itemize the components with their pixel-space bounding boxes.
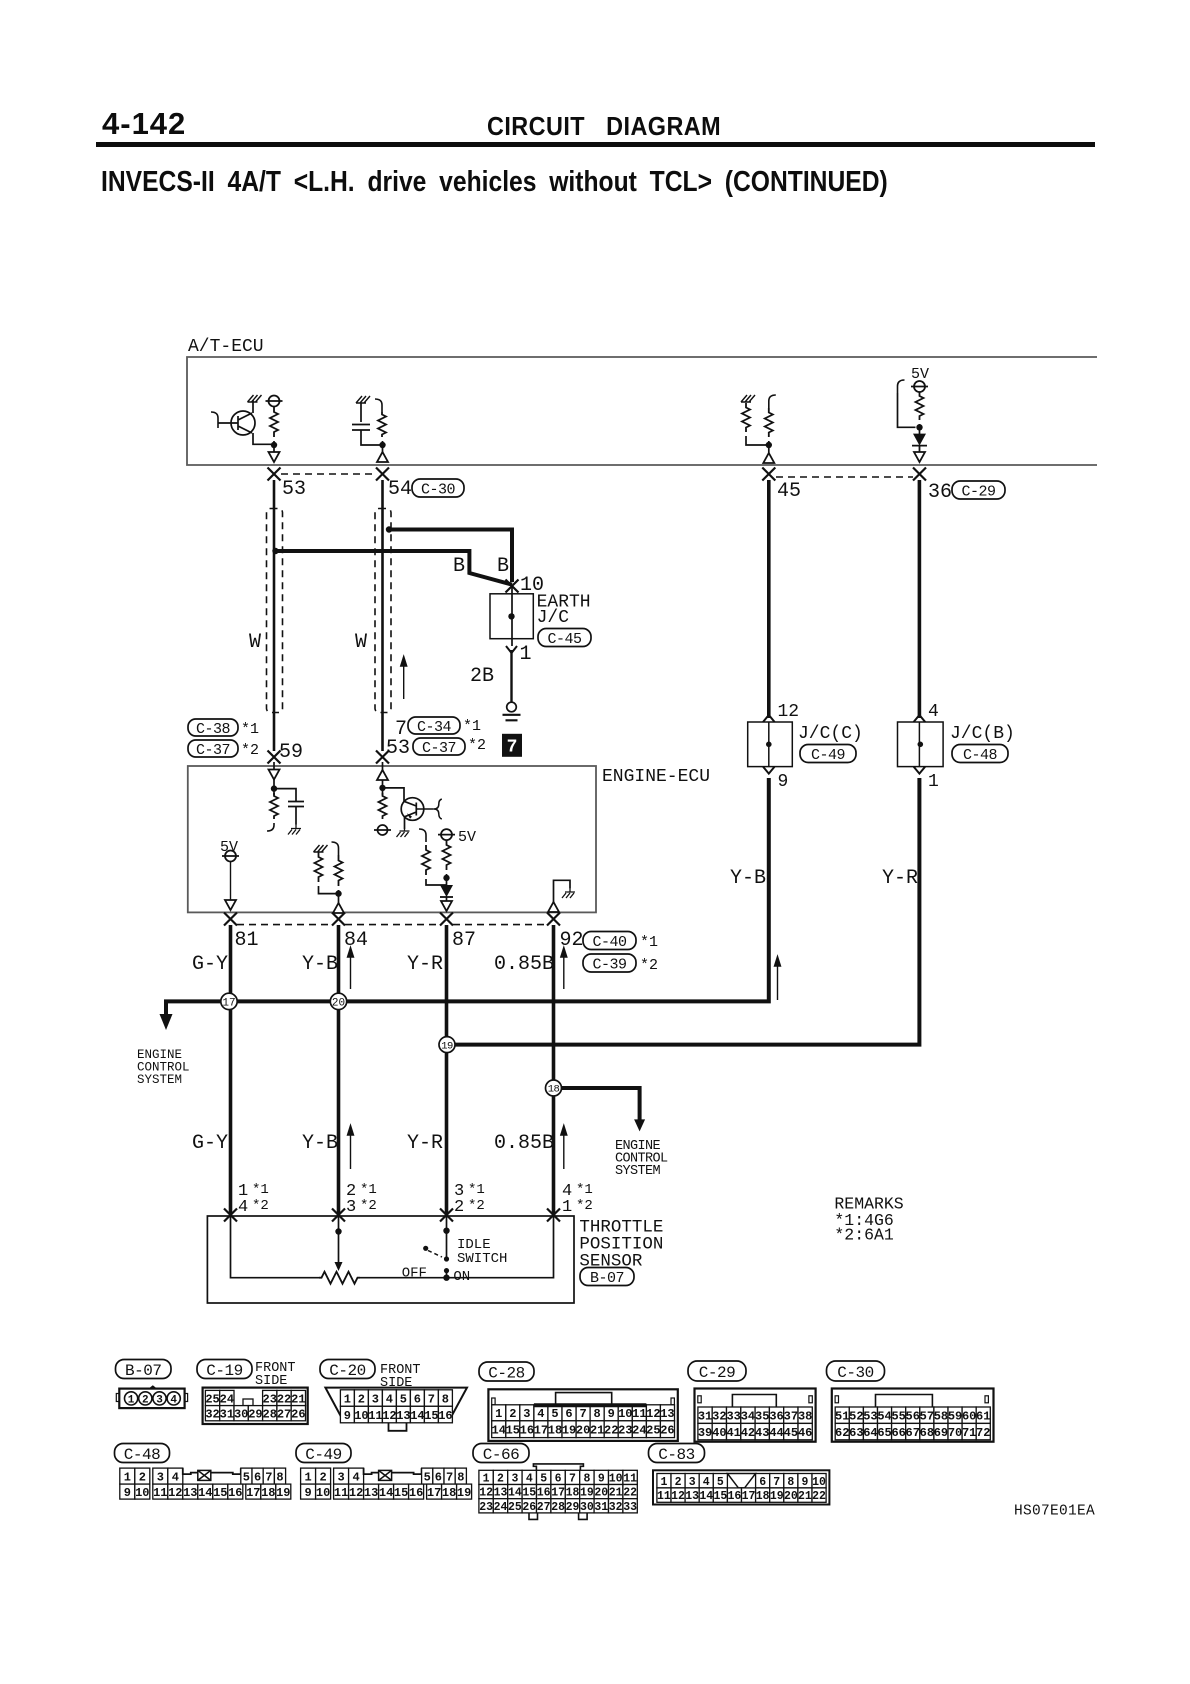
svg-text:66: 66 xyxy=(891,1426,905,1440)
wire Y-R to J/C(B) xyxy=(918,480,922,718)
svg-text:C-66: C-66 xyxy=(483,1446,519,1464)
wire Y-B upper xyxy=(337,925,341,1216)
pin 53 connector mark xyxy=(268,468,281,481)
svg-text:6: 6 xyxy=(435,1470,442,1484)
dashed harness box left xyxy=(267,509,283,713)
svg-text:43: 43 xyxy=(755,1426,769,1440)
svg-text:5: 5 xyxy=(424,1470,431,1484)
svg-text:14: 14 xyxy=(699,1490,713,1503)
junction dot node87 xyxy=(443,875,449,881)
pin 87 connector mark xyxy=(440,913,453,926)
svg-text:4: 4 xyxy=(352,1470,359,1484)
svg-text:5: 5 xyxy=(400,1392,407,1406)
TPS wiper junction dot xyxy=(335,1228,341,1234)
svg-text:16: 16 xyxy=(537,1487,551,1500)
svg-text:69: 69 xyxy=(934,1426,948,1440)
TPS wiper arrow xyxy=(335,1262,343,1271)
svg-text:17: 17 xyxy=(551,1487,565,1500)
diode D2 xyxy=(446,874,448,886)
svg-text:7: 7 xyxy=(579,1407,586,1421)
svg-text:Y-R: Y-R xyxy=(407,1132,443,1155)
connector tag C-30 bottom xyxy=(827,1361,885,1381)
svg-text:32: 32 xyxy=(205,1408,219,1422)
svg-text:11: 11 xyxy=(632,1407,646,1421)
J/C(C) wire through xyxy=(768,722,770,767)
svg-text:*2:6A1: *2:6A1 xyxy=(834,1226,894,1245)
curl above R4 xyxy=(769,395,776,408)
pin 10 mark earth J/C xyxy=(506,580,519,593)
svg-text:3: 3 xyxy=(372,1392,379,1406)
svg-text:16: 16 xyxy=(228,1486,242,1500)
branch wire to engine control system left xyxy=(166,1001,231,1015)
svg-text:71: 71 xyxy=(962,1426,976,1440)
svg-text:17: 17 xyxy=(246,1486,260,1500)
svg-text:SWITCH: SWITCH xyxy=(457,1251,507,1267)
svg-text:63: 63 xyxy=(849,1426,863,1440)
svg-text:C-48: C-48 xyxy=(124,1446,160,1464)
branch circle 20 xyxy=(330,993,346,1009)
svg-text:C-49: C-49 xyxy=(811,747,845,764)
svg-text:37: 37 xyxy=(784,1410,798,1424)
svg-text:ON: ON xyxy=(453,1269,470,1285)
curl above R2 xyxy=(375,399,382,412)
header rule xyxy=(96,142,1095,147)
svg-text:41: 41 xyxy=(726,1426,740,1440)
svg-text:12: 12 xyxy=(382,1409,396,1423)
svg-text:12: 12 xyxy=(479,1487,493,1500)
svg-text:16: 16 xyxy=(409,1486,423,1500)
svg-text:14: 14 xyxy=(492,1424,506,1438)
svg-text:15: 15 xyxy=(713,1490,727,1503)
svg-text:0.85B: 0.85B xyxy=(494,1132,554,1155)
5V terminal G3 xyxy=(225,851,236,862)
connector C-83 drawing xyxy=(653,1470,829,1504)
arrowhead engine control right xyxy=(634,1119,645,1131)
svg-text:22: 22 xyxy=(623,1487,637,1500)
svg-text:C-49: C-49 xyxy=(305,1446,341,1464)
svg-text:*2: *2 xyxy=(468,1198,485,1214)
idle switch OFF dot xyxy=(423,1246,428,1251)
svg-text:6: 6 xyxy=(254,1470,261,1484)
svg-text:23: 23 xyxy=(618,1424,632,1438)
svg-text:6: 6 xyxy=(759,1476,766,1489)
svg-text:10: 10 xyxy=(354,1409,368,1423)
svg-text:67: 67 xyxy=(906,1426,920,1440)
idle switch top junction dot xyxy=(443,1228,449,1234)
pin 87 triangle xyxy=(446,897,448,902)
svg-text:SYSTEM: SYSTEM xyxy=(137,1073,182,1087)
connector tag B-07 xyxy=(580,1268,634,1286)
svg-text:7: 7 xyxy=(773,1476,780,1489)
svg-text:SYSTEM: SYSTEM xyxy=(615,1164,661,1179)
svg-text:56: 56 xyxy=(906,1410,920,1424)
svg-text:A/T-ECU: A/T-ECU xyxy=(188,337,264,357)
svg-text:12: 12 xyxy=(778,702,800,722)
J/C(C) center dot xyxy=(766,742,772,748)
power terminal above R1 xyxy=(269,396,280,407)
svg-text:15: 15 xyxy=(213,1486,227,1500)
svg-text:54: 54 xyxy=(877,1410,891,1424)
capacitor C1 xyxy=(352,403,381,445)
pin 4 mark J/C(B) xyxy=(914,715,926,722)
ground below Q2 base xyxy=(397,829,410,837)
svg-text:12: 12 xyxy=(349,1486,363,1500)
svg-text:87: 87 xyxy=(452,929,476,952)
connector tag C-29 xyxy=(952,481,1005,499)
svg-text:15: 15 xyxy=(522,1487,536,1500)
svg-text:1: 1 xyxy=(483,1473,490,1486)
svg-text:24: 24 xyxy=(220,1392,234,1406)
svg-text:4: 4 xyxy=(703,1476,710,1489)
J/C(C) box xyxy=(748,722,793,767)
svg-text:84: 84 xyxy=(344,929,368,952)
pin 54 connector mark xyxy=(376,468,389,481)
svg-text:11: 11 xyxy=(623,1473,637,1486)
svg-text:1: 1 xyxy=(660,1476,667,1489)
svg-text:J/C: J/C xyxy=(537,608,570,628)
svg-text:*2: *2 xyxy=(640,957,658,974)
resistor R6 xyxy=(270,793,278,819)
svg-text:*1: *1 xyxy=(241,721,259,738)
curl above shunt wire xyxy=(898,380,905,393)
svg-text:1: 1 xyxy=(344,1392,351,1406)
svg-text:2: 2 xyxy=(509,1407,516,1421)
svg-text:14: 14 xyxy=(198,1486,212,1500)
terminal below R7 xyxy=(378,825,388,835)
svg-text:C-83: C-83 xyxy=(658,1446,694,1464)
svg-text:*2: *2 xyxy=(468,737,486,754)
resistor R4 xyxy=(765,408,773,437)
idle switch dashed lever xyxy=(428,1251,442,1258)
svg-text:23: 23 xyxy=(479,1501,493,1514)
svg-text:53: 53 xyxy=(282,478,306,501)
svg-text:17: 17 xyxy=(222,998,235,1010)
svg-text:27: 27 xyxy=(537,1501,551,1514)
svg-text:64: 64 xyxy=(863,1426,877,1440)
svg-text:C-48: C-48 xyxy=(963,747,998,764)
wire 53 vertical xyxy=(273,480,276,751)
svg-text:7: 7 xyxy=(265,1470,272,1484)
svg-text:19: 19 xyxy=(770,1490,784,1503)
svg-text:32: 32 xyxy=(609,1501,623,1514)
svg-text:*1: *1 xyxy=(640,934,658,951)
hatch above R8 xyxy=(314,845,328,852)
svg-text:14: 14 xyxy=(379,1486,393,1500)
ground below C2 xyxy=(288,825,301,835)
svg-text:2: 2 xyxy=(142,1395,149,1407)
transistor Q1 xyxy=(231,411,255,435)
svg-text:19: 19 xyxy=(562,1424,576,1438)
A/T-ECU box xyxy=(187,357,1097,465)
arrowhead engine control left xyxy=(160,1014,173,1030)
svg-text:33: 33 xyxy=(726,1410,740,1424)
black wire B from 54 to earth J/C xyxy=(389,530,512,583)
svg-text:2: 2 xyxy=(319,1470,326,1484)
resistor R7 xyxy=(379,793,387,819)
svg-text:3: 3 xyxy=(523,1407,530,1421)
branch circle 17 xyxy=(221,993,237,1009)
svg-text:G-Y: G-Y xyxy=(192,953,228,976)
idle switch on dot xyxy=(444,1268,449,1273)
arrow up beside Y-B mid xyxy=(775,957,781,1001)
junction dot on wire 53 xyxy=(272,548,278,554)
svg-text:C-38: C-38 xyxy=(196,721,231,738)
earth J/C center dot xyxy=(508,613,514,619)
svg-text:4: 4 xyxy=(172,1470,179,1484)
J/C(B) center dot xyxy=(918,742,924,748)
svg-text:W: W xyxy=(249,631,261,654)
wire to R6 xyxy=(273,780,275,796)
svg-text:36: 36 xyxy=(769,1410,783,1424)
pin 81 connector mark xyxy=(224,913,237,926)
dashed link pin45-36 xyxy=(776,476,913,478)
svg-text:17: 17 xyxy=(742,1490,756,1503)
svg-text:11: 11 xyxy=(368,1409,382,1423)
svg-text:11: 11 xyxy=(153,1486,167,1500)
svg-text:J/C(C): J/C(C) xyxy=(798,724,863,744)
svg-text:30: 30 xyxy=(580,1501,594,1514)
svg-text:29: 29 xyxy=(566,1501,580,1514)
svg-text:B-07: B-07 xyxy=(590,1270,624,1287)
resistor R10 xyxy=(422,845,430,875)
connector tag C-40 xyxy=(583,932,636,950)
svg-text:Y-R: Y-R xyxy=(882,867,918,890)
connector tag C-39 xyxy=(583,954,636,972)
svg-text:46: 46 xyxy=(798,1426,812,1440)
pin 7/53 connector mark xyxy=(376,751,389,764)
svg-text:29: 29 xyxy=(248,1408,262,1422)
svg-text:15: 15 xyxy=(394,1486,408,1500)
connector C-66 drawing xyxy=(533,1464,583,1470)
svg-text:2: 2 xyxy=(358,1392,365,1406)
resistor R5 xyxy=(916,392,924,420)
junction dot node84 xyxy=(335,890,341,896)
svg-text:10: 10 xyxy=(812,1476,826,1489)
svg-text:20: 20 xyxy=(332,998,345,1010)
curl above R9 xyxy=(332,842,339,855)
svg-text:18: 18 xyxy=(756,1490,770,1503)
wire R4 to pin 45 xyxy=(768,441,770,453)
wire Y-R upper xyxy=(445,925,449,1216)
connector tag C-20 xyxy=(320,1360,375,1379)
svg-text:13: 13 xyxy=(660,1407,674,1421)
5V terminal above R5 xyxy=(914,381,925,392)
pin 84 connector mark xyxy=(332,913,345,926)
svg-text:17: 17 xyxy=(427,1486,441,1500)
svg-text:3: 3 xyxy=(157,1470,164,1484)
TPS pin1 connector mark xyxy=(224,1209,237,1222)
svg-text:34: 34 xyxy=(741,1410,755,1424)
connector C-19 drawing xyxy=(203,1388,308,1424)
svg-text:1: 1 xyxy=(495,1407,502,1421)
connector tag B-07 bottom xyxy=(116,1360,172,1379)
svg-text:4: 4 xyxy=(928,702,939,722)
svg-text:7: 7 xyxy=(507,738,518,758)
svg-text:4: 4 xyxy=(386,1392,393,1406)
svg-text:*2: *2 xyxy=(576,1198,593,1214)
curl on Q1 base xyxy=(211,412,218,428)
svg-text:62: 62 xyxy=(835,1426,849,1440)
pin 12 mark J/C(C) xyxy=(763,715,775,722)
svg-text:17: 17 xyxy=(534,1424,548,1438)
svg-text:C-39: C-39 xyxy=(592,956,626,973)
connector C-29 drawing xyxy=(695,1389,816,1442)
svg-text:19: 19 xyxy=(441,1040,453,1052)
wire 17-20 horizontal xyxy=(231,999,339,1003)
svg-text:10: 10 xyxy=(618,1407,632,1421)
TPS potentiometer resistor xyxy=(319,1272,360,1284)
svg-text:9: 9 xyxy=(801,1476,808,1489)
connector C-28 drawing xyxy=(488,1389,677,1441)
svg-text:7: 7 xyxy=(446,1470,453,1484)
svg-text:52: 52 xyxy=(849,1410,863,1424)
resistor R9 xyxy=(335,855,343,886)
svg-text:21: 21 xyxy=(609,1487,623,1500)
pin 36 connector mark xyxy=(913,468,926,481)
entry triangle pin 59 xyxy=(273,762,275,770)
page number xyxy=(102,106,186,142)
curl above R10 xyxy=(419,829,426,842)
svg-text:40: 40 xyxy=(712,1426,726,1440)
arrow up beside Y-B 1 xyxy=(348,948,354,990)
svg-text:5: 5 xyxy=(243,1470,250,1484)
svg-text:C-19: C-19 xyxy=(206,1362,242,1380)
dashed harness box right xyxy=(375,509,391,713)
diagram title xyxy=(101,166,888,199)
svg-text:8: 8 xyxy=(787,1476,794,1489)
connector tag C-49 jc xyxy=(800,745,856,763)
svg-text:26: 26 xyxy=(660,1424,674,1438)
junction dot R7 base xyxy=(379,785,385,791)
svg-text:39: 39 xyxy=(698,1426,712,1440)
svg-text:18: 18 xyxy=(566,1487,580,1500)
connector tag C-48 bottom + drawing xyxy=(115,1444,170,1463)
svg-text:23: 23 xyxy=(263,1392,277,1406)
svg-text:59: 59 xyxy=(948,1410,962,1424)
svg-text:2B: 2B xyxy=(470,665,494,688)
svg-text:70: 70 xyxy=(948,1426,962,1440)
svg-text:5: 5 xyxy=(540,1473,547,1486)
branch circle 19 xyxy=(439,1037,455,1053)
svg-text:28: 28 xyxy=(551,1501,565,1514)
svg-text:21: 21 xyxy=(291,1392,305,1406)
arrow up beside 0.85B 2 xyxy=(561,1126,567,1170)
svg-text:OFF: OFF xyxy=(402,1266,427,1282)
svg-text:45: 45 xyxy=(777,480,801,503)
svg-text:C-34: C-34 xyxy=(417,719,452,736)
svg-text:5: 5 xyxy=(551,1407,558,1421)
connector tag C-34 xyxy=(408,717,460,734)
pin 59 connector mark xyxy=(268,751,281,764)
ENGINE-ECU box xyxy=(188,766,596,912)
svg-text:15: 15 xyxy=(506,1424,520,1438)
svg-text:51: 51 xyxy=(835,1410,849,1424)
svg-text:1: 1 xyxy=(928,772,939,792)
svg-text:C-30: C-30 xyxy=(837,1364,873,1382)
svg-text:2: 2 xyxy=(139,1470,146,1484)
svg-text:3: 3 xyxy=(337,1470,344,1484)
diode D1 xyxy=(919,424,921,435)
svg-text:13: 13 xyxy=(494,1487,508,1500)
pin 36 triangle xyxy=(914,452,925,462)
pin 92 triangle xyxy=(548,902,559,912)
svg-text:1: 1 xyxy=(124,1470,131,1484)
svg-text:C-28: C-28 xyxy=(488,1364,524,1382)
svg-text:24: 24 xyxy=(632,1424,646,1438)
svg-text:59: 59 xyxy=(279,741,303,764)
pin 9 mark J/C(C) xyxy=(763,767,775,774)
connector C-20 drawing xyxy=(325,1388,467,1422)
svg-text:13: 13 xyxy=(364,1486,378,1500)
connector tag C-83 xyxy=(649,1444,705,1463)
pin 54 triangle xyxy=(377,452,388,462)
connector C-49 bottom drawing xyxy=(296,1444,351,1463)
svg-text:C-37: C-37 xyxy=(196,742,230,759)
svg-text:C-37: C-37 xyxy=(422,740,456,757)
svg-text:16: 16 xyxy=(438,1409,452,1423)
svg-text:9: 9 xyxy=(598,1473,605,1486)
svg-text:9: 9 xyxy=(124,1486,131,1500)
TPS box xyxy=(207,1216,574,1303)
svg-text:8: 8 xyxy=(594,1407,601,1421)
svg-text:14: 14 xyxy=(410,1409,424,1423)
svg-text:8: 8 xyxy=(442,1392,449,1406)
pin 45 connector mark xyxy=(762,468,775,481)
TPS inner wire right xyxy=(360,1216,554,1278)
svg-text:4: 4 xyxy=(537,1407,544,1421)
pin 1 mark earth J/C xyxy=(506,646,517,653)
5V terminal G5 xyxy=(441,829,452,840)
earth J/C box xyxy=(490,594,533,639)
junction dot node36 xyxy=(916,424,922,430)
svg-text:19: 19 xyxy=(580,1487,594,1500)
svg-text:72: 72 xyxy=(976,1426,990,1440)
svg-text:C-20: C-20 xyxy=(329,1362,365,1380)
svg-text:18: 18 xyxy=(442,1486,456,1500)
ground below hook xyxy=(562,888,575,898)
svg-text:68: 68 xyxy=(920,1426,934,1440)
wire 5V to pin 81 xyxy=(230,862,232,901)
svg-text:2: 2 xyxy=(675,1476,682,1489)
resistor R3 xyxy=(742,403,750,432)
idle switch wire upper xyxy=(446,1216,448,1259)
svg-text:8: 8 xyxy=(276,1470,283,1484)
hatch above R3 xyxy=(741,395,755,402)
svg-text:5V: 5V xyxy=(458,829,476,846)
svg-text:10: 10 xyxy=(316,1486,330,1500)
svg-text:9: 9 xyxy=(304,1486,311,1500)
svg-text:20: 20 xyxy=(576,1424,590,1438)
curl below R6 xyxy=(267,823,274,831)
svg-text:4: 4 xyxy=(526,1473,533,1486)
svg-text:12: 12 xyxy=(671,1490,685,1503)
svg-text:G-Y: G-Y xyxy=(192,1132,228,1155)
svg-text:53: 53 xyxy=(863,1410,877,1424)
svg-text:J/C(B): J/C(B) xyxy=(950,724,1015,744)
wire R8 to node84 xyxy=(319,886,339,894)
black square 7 xyxy=(502,734,522,757)
svg-text:25: 25 xyxy=(508,1501,522,1514)
svg-text:26: 26 xyxy=(291,1408,305,1422)
idle switch contact top dot xyxy=(444,1256,449,1261)
junction dot R6/C2 xyxy=(271,785,277,791)
junction dot pin54 net xyxy=(379,442,385,448)
svg-text:27: 27 xyxy=(277,1408,291,1422)
svg-text:18: 18 xyxy=(548,1424,562,1438)
svg-text:22: 22 xyxy=(812,1490,826,1503)
svg-text:3: 3 xyxy=(689,1476,696,1489)
TPS pin2 connector mark xyxy=(332,1209,345,1222)
